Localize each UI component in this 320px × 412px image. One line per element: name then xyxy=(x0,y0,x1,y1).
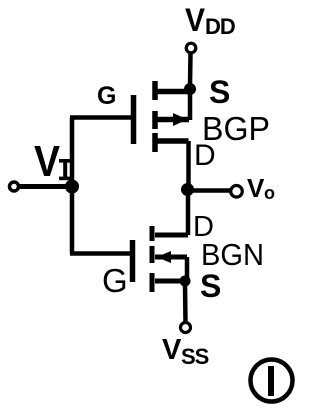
svg-text:SS: SS xyxy=(181,344,209,369)
svg-text:D: D xyxy=(194,139,216,172)
svg-text:G: G xyxy=(97,82,116,110)
svg-text:G: G xyxy=(102,262,128,299)
svg-text:S: S xyxy=(200,268,221,304)
svg-text:V: V xyxy=(185,2,206,38)
svg-text:o: o xyxy=(264,183,275,203)
svg-text:BGN: BGN xyxy=(201,237,264,272)
svg-text:V: V xyxy=(247,173,265,203)
svg-text:V: V xyxy=(34,137,61,186)
svg-text:DD: DD xyxy=(205,14,235,39)
svg-text:V: V xyxy=(162,334,182,366)
svg-text:S: S xyxy=(209,74,230,110)
